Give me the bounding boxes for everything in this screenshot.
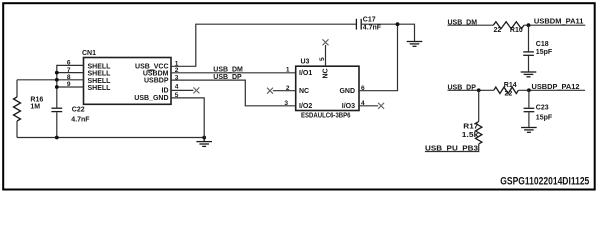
svg-text:U3: U3 [301, 58, 310, 65]
U3 pin 6 [361, 85, 365, 92]
svg-text:4: 4 [175, 84, 179, 91]
junction USB_DP / R17 [477, 88, 481, 92]
node USB_PU_PB3 label [425, 146, 478, 153]
CN1 pin 6 [67, 60, 71, 67]
CN1 pin 1 [175, 61, 179, 68]
wire USB_DP right lead [448, 89, 494, 91]
ground at C23 [521, 128, 537, 133]
svg-text:SHELL: SHELL [88, 78, 112, 85]
wire pin9 stub [57, 86, 84, 88]
junction USB_DM / C18 [527, 23, 531, 27]
CN1 pin 8 [67, 74, 71, 81]
no-connect X U3 pin5 [323, 39, 329, 45]
wire CN1 pin4 stub [171, 89, 193, 91]
U3 pin 3 [284, 100, 288, 107]
ground at C17 [407, 42, 423, 47]
node USB_DP right label [448, 84, 477, 91]
capacitor C23 [524, 90, 553, 127]
no-connect X CN1 pin4 [193, 87, 199, 93]
capacitor C17 [356, 17, 381, 32]
svg-text:USBDM: USBDM [143, 71, 169, 78]
node USBDM_PA11 label [534, 19, 584, 26]
svg-text:1: 1 [286, 67, 290, 74]
resistor R10 [493, 22, 524, 34]
node USB_DM label [213, 67, 243, 74]
svg-text:USB_DP: USB_DP [213, 74, 242, 81]
wire net USB_DM (CN1 pin2 to U3 pin1) [171, 72, 296, 74]
svg-text:NC: NC [323, 68, 330, 78]
svg-text:GND: GND [339, 88, 355, 95]
svg-text:15pF: 15pF [536, 49, 553, 56]
U3 pin 4 [361, 100, 365, 107]
wire C17 right to ground [361, 24, 414, 41]
svg-text:CN1: CN1 [82, 50, 96, 57]
svg-text:3: 3 [284, 100, 288, 107]
node USBDP_PA12 label [532, 84, 580, 91]
resistor R17 [462, 90, 482, 144]
wire pin7 stub [57, 72, 84, 74]
svg-text:4.7nF: 4.7nF [363, 24, 382, 31]
svg-text:I/O3: I/O3 [342, 103, 355, 110]
CN1 pin 9 [67, 81, 71, 88]
wire bottom rail [17, 137, 204, 139]
svg-text:SHELL: SHELL [88, 64, 112, 71]
svg-text:R16: R16 [30, 97, 43, 104]
svg-text:USB_GND: USB_GND [134, 95, 168, 102]
svg-text:USBDP: USBDP [144, 78, 169, 85]
svg-text:15pF: 15pF [536, 115, 553, 122]
CN1 pin 2 [175, 67, 179, 74]
border frame [3, 3, 595, 189]
junction bus pin9 [55, 85, 59, 89]
svg-text:I/O1: I/O1 [299, 70, 312, 77]
wire pin6 stub [57, 65, 84, 72]
svg-text:4.7nF: 4.7nF [71, 117, 90, 124]
wire USB_DM right lead [448, 24, 494, 26]
CN1 pin 5 [175, 92, 179, 99]
svg-text:USBDP_PA12: USBDP_PA12 [532, 84, 580, 91]
svg-text:USB_DM: USB_DM [213, 67, 243, 74]
svg-text:C18: C18 [536, 41, 549, 48]
svg-text:SHELL: SHELL [88, 71, 112, 78]
wire shell bus vertical [56, 73, 58, 108]
node USB_DM right label [448, 19, 478, 26]
svg-text:USBDM_PA11: USBDM_PA11 [534, 19, 584, 26]
wire U3 pin5 stub [325, 45, 327, 66]
svg-text:R17: R17 [463, 124, 478, 131]
ground under CN1 [196, 138, 212, 147]
svg-text:R14: R14 [504, 82, 517, 89]
CN1 pin 7 [67, 67, 71, 74]
svg-text:USB_PU_PB3: USB_PU_PB3 [425, 146, 478, 153]
node USB_DP label [213, 74, 242, 81]
resistor R14 [494, 82, 519, 97]
junction C17 net / U3 GND [396, 22, 400, 26]
svg-text:SHELL: SHELL [88, 85, 112, 92]
junction bus pin7 [55, 71, 59, 75]
svg-text:1M: 1M [30, 104, 40, 111]
wire U3 pin6 to GND net [359, 24, 398, 91]
svg-text:R10: R10 [510, 27, 523, 34]
svg-text:22: 22 [494, 27, 502, 34]
wire R17 to USB_PU_PB3 [425, 144, 479, 152]
svg-text:NC: NC [299, 88, 309, 95]
junction USB_DP / C23 [527, 88, 531, 92]
wire CN1 pin5 to ground [171, 98, 204, 138]
U3 pin 1 [286, 67, 290, 74]
wire U3 pin4 stub [359, 105, 378, 107]
wire CN1 pin1 to C17 [171, 24, 356, 66]
svg-text:C22: C22 [72, 107, 85, 114]
junction rail C22 [55, 136, 59, 140]
wire R14 to USBDP_PA12 [518, 89, 585, 91]
svg-text:ID: ID [162, 87, 169, 94]
svg-text:GSPG11022014DI1125: GSPG11022014DI1125 [500, 175, 589, 187]
svg-text:5: 5 [319, 57, 326, 61]
no-connect X U3 pin2 [267, 88, 273, 94]
connector CN1 [82, 50, 171, 104]
resistor R16 [14, 80, 44, 138]
capacitor C22 [51, 107, 90, 138]
svg-text:C23: C23 [536, 104, 549, 111]
CN1 pin 3 [175, 74, 179, 81]
op-amp U3 (ESD protection) [296, 58, 359, 119]
svg-text:1.5k: 1.5k [462, 132, 479, 139]
U3 pin 2 [286, 85, 290, 92]
junction bus pin8 [55, 78, 59, 82]
document number GSPG11022014DI1125 [500, 175, 589, 187]
ground at C18 [521, 72, 537, 77]
junction rail ground [202, 136, 206, 140]
wire net USB_DP (CN1 pin3 to U3 pin3) [171, 80, 296, 106]
no-connect X U3 pin4 [378, 103, 384, 109]
svg-text:C17: C17 [363, 17, 376, 24]
wire R10 to USBDM_PA11 [524, 24, 585, 26]
capacitor C18 [523, 25, 553, 71]
U3 pin 5 [319, 57, 326, 61]
wire pin8 stub to left rail [17, 79, 84, 81]
wire U3 pin2 stub [273, 90, 296, 92]
svg-text:22: 22 [505, 90, 513, 97]
CN1 pin 4 [175, 84, 179, 91]
svg-text:ESDAULC6-3BP6: ESDAULC6-3BP6 [301, 113, 351, 120]
svg-text:I/O2: I/O2 [299, 103, 312, 110]
